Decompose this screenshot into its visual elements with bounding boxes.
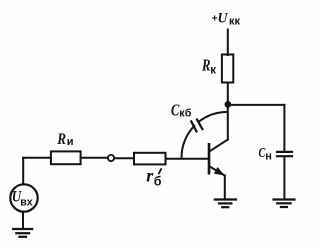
wire Ri to node circle	[81, 157, 108, 159]
wire Uvx to ground	[22, 212, 24, 229]
wire node to Cn (top horizontal)	[228, 104, 284, 106]
wire node to collector bend	[227, 104, 229, 140]
svg-text:кк: кк	[229, 16, 241, 28]
capacitor Ckb arc left	[182, 126, 195, 158]
wire emitter to ground	[224, 175, 226, 198]
label r'b	[146, 166, 162, 189]
resistor Rk	[222, 55, 233, 83]
transistor Q1 emitter arrow	[214, 167, 225, 176]
wire +Ukk to Rk	[227, 30, 229, 56]
capacitor Ckb arc right	[199, 112, 227, 122]
label +Ukk	[212, 10, 241, 27]
ground emitter	[215, 200, 236, 208]
label Cn	[259, 146, 272, 162]
base wire r'b to Q1	[166, 158, 209, 160]
svg-text:R: R	[56, 131, 66, 148]
label Uvx	[12, 189, 33, 209]
node open circle	[108, 155, 114, 161]
wire Rk to collector node	[227, 83, 229, 104]
transistor Q1 emitter lead	[209, 166, 225, 175]
wire Uvx to corner	[22, 158, 24, 185]
resistor Ri	[51, 151, 81, 164]
wire Cn to ground	[283, 157, 285, 198]
source Uvx circle	[10, 184, 37, 211]
ground right	[274, 200, 295, 208]
capacitor Ckb plates	[191, 120, 202, 132]
transistor Q1 base bar	[208, 144, 211, 173]
svg-text:R: R	[201, 55, 210, 74]
transistor Q1 collector lead	[209, 140, 228, 152]
wire node circle to r'b	[114, 157, 134, 159]
svg-text:и: и	[67, 136, 74, 148]
svg-text:U: U	[218, 10, 229, 26]
svg-text:к: к	[210, 65, 216, 77]
resistor r'b	[134, 153, 166, 165]
ground left	[13, 229, 32, 237]
label Ri	[56, 131, 73, 148]
label Ckb	[171, 100, 192, 119]
svg-text:вх: вх	[20, 197, 33, 209]
wire Cn top vertical	[283, 105, 285, 151]
label Rk	[201, 55, 216, 76]
collector node dot	[225, 101, 232, 108]
svg-text:б: б	[154, 175, 162, 189]
wire corner to Ri	[23, 157, 51, 159]
svg-text:кб: кб	[179, 108, 191, 120]
capacitor Cn	[277, 152, 292, 156]
svg-text:н: н	[265, 151, 272, 163]
